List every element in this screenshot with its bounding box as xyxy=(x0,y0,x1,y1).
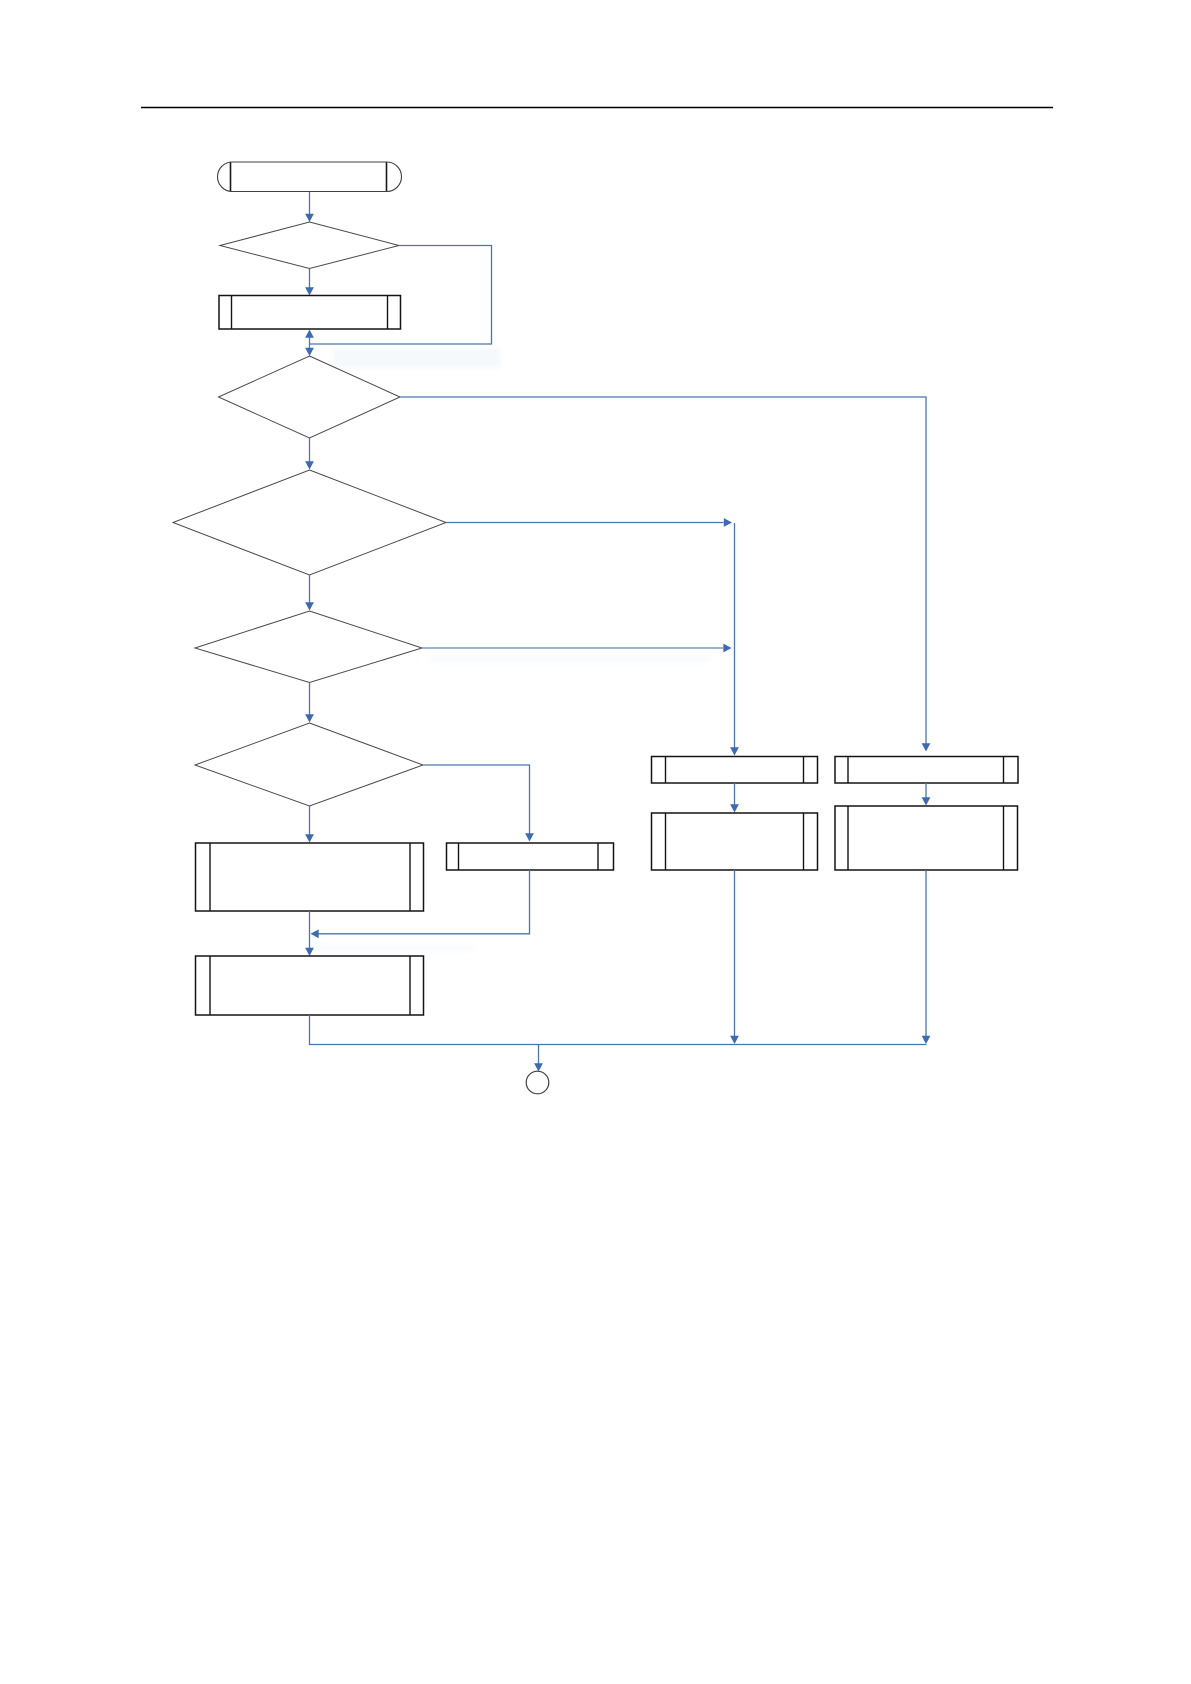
wire D5 to L1 xyxy=(305,806,314,843)
wire D4 to D5 xyxy=(305,683,314,723)
header rule xyxy=(141,107,1053,109)
ghost text C xyxy=(315,944,475,951)
wire D2 right to R2a xyxy=(400,397,930,752)
ghost text B xyxy=(430,656,710,662)
wire M to junction xyxy=(311,870,530,938)
decision D3 xyxy=(173,470,446,575)
wire D3 to D4 xyxy=(305,575,314,611)
connector end circle xyxy=(526,1071,549,1094)
predefined process L1 xyxy=(196,843,424,911)
wire L2 to bottom bus xyxy=(310,1015,927,1045)
wire bus to end circle xyxy=(534,1045,543,1072)
predefined process L2 xyxy=(196,956,424,1015)
wire D3 right arrow xyxy=(446,518,732,527)
decision D1 xyxy=(220,222,399,269)
wire corner down to R1a xyxy=(730,523,739,756)
wire D4 right arrow xyxy=(422,644,732,653)
wire R2a to R2b xyxy=(922,783,931,806)
wire R2b to bottom bus xyxy=(922,870,931,1044)
terminator start (stadium) xyxy=(218,162,402,192)
ghost text A xyxy=(333,348,501,368)
wire D1 to P1 xyxy=(305,269,314,296)
predefined process R2a xyxy=(835,757,1018,784)
wire start to D1 xyxy=(305,192,314,222)
decision D5 xyxy=(195,723,423,806)
predefined process P1 xyxy=(219,296,401,330)
predefined process R1b xyxy=(652,813,818,870)
wire D2 to D3 xyxy=(305,438,314,470)
decision D4 xyxy=(195,611,422,683)
wire R1a to R1b xyxy=(730,783,739,813)
wire L1 to L2 xyxy=(305,911,314,956)
wire D1 loop back to P1 xyxy=(305,246,491,357)
predefined process M xyxy=(447,843,614,870)
decision D2 xyxy=(219,356,401,438)
wire D5 right to M xyxy=(423,765,534,842)
predefined process R2b xyxy=(835,806,1018,870)
wire R1b to bottom bus xyxy=(730,870,739,1044)
predefined process R1a xyxy=(652,757,818,784)
